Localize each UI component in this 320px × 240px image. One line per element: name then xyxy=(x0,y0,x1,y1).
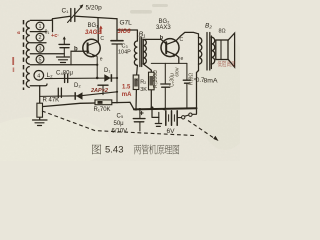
svg-text:G7L: G7L xyxy=(120,20,133,27)
svg-text:b: b xyxy=(74,47,78,53)
svg-text:D₂: D₂ xyxy=(74,83,81,89)
svg-text:R 47K: R 47K xyxy=(43,98,60,104)
svg-text:5.43: 5.43 xyxy=(105,145,124,156)
svg-text:C₁: C₁ xyxy=(62,8,70,15)
svg-text:B₂: B₂ xyxy=(205,23,212,30)
svg-text:mA: mA xyxy=(122,92,132,98)
svg-text:L₂: L₂ xyxy=(47,72,54,79)
svg-text:2AP×2: 2AP×2 xyxy=(90,88,108,94)
svg-text:3Ю6: 3Ю6 xyxy=(118,29,132,35)
svg-text:1: 1 xyxy=(39,24,42,30)
svg-text:8Ω: 8Ω xyxy=(219,29,226,35)
svg-text:3: 3 xyxy=(39,46,42,52)
svg-text:6/10V: 6/10V xyxy=(112,129,128,135)
svg-text:D₁: D₁ xyxy=(104,68,110,74)
svg-text:C: C xyxy=(100,36,104,42)
svg-text:3K: 3K xyxy=(140,87,147,93)
svg-text:R₁70K: R₁70K xyxy=(94,107,111,113)
svg-text:6/0V: 6/0V xyxy=(175,67,180,76)
svg-text:C₄80μ: C₄80μ xyxy=(56,71,73,77)
svg-text:R₂: R₂ xyxy=(140,80,146,86)
svg-text:×: × xyxy=(135,77,138,83)
svg-text:e: e xyxy=(100,57,103,63)
svg-text:+c·: +c· xyxy=(51,33,59,39)
svg-text:104P: 104P xyxy=(118,50,131,56)
svg-text:2: 2 xyxy=(39,35,42,41)
svg-text:B₁: B₁ xyxy=(139,32,147,39)
svg-text:4: 4 xyxy=(37,74,40,80)
svg-text:R₄8Ω: R₄8Ω xyxy=(189,73,195,85)
svg-text:3AX3: 3AX3 xyxy=(156,25,171,31)
svg-text:C: C xyxy=(180,37,184,43)
svg-text:5: 5 xyxy=(39,57,42,63)
svg-text:8mA: 8mA xyxy=(204,77,218,84)
svg-text:5/20p: 5/20p xyxy=(86,5,103,12)
svg-text:50μ: 50μ xyxy=(114,121,125,127)
svg-text:BG₁: BG₁ xyxy=(88,23,99,29)
svg-text:1.5: 1.5 xyxy=(122,85,131,91)
svg-text:6V: 6V xyxy=(167,128,176,135)
svg-text:C₅: C₅ xyxy=(117,114,124,120)
svg-text:θ₁: θ₁ xyxy=(45,30,50,36)
svg-text:+: + xyxy=(163,108,166,114)
svg-text:R₃200Ω: R₃200Ω xyxy=(153,70,159,88)
svg-text:e: e xyxy=(181,56,184,62)
svg-text:3AG2: 3AG2 xyxy=(85,30,101,36)
